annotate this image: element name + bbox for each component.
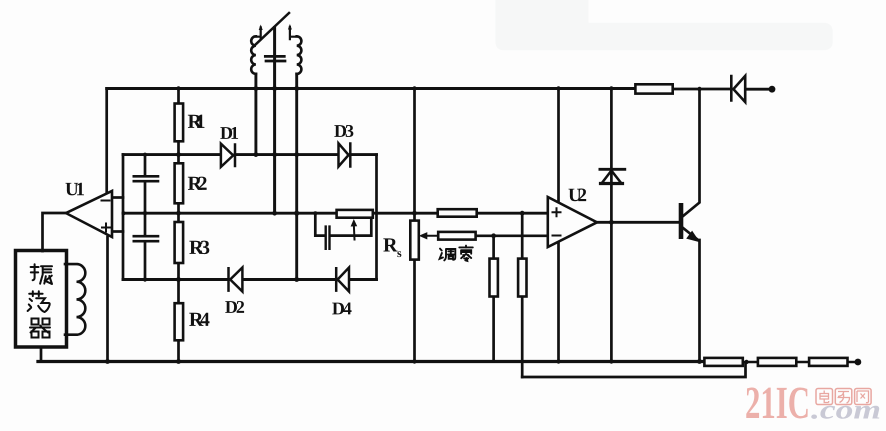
svg-text:U1: U1 bbox=[65, 179, 85, 200]
transistor Q1 emitter arrowhead bbox=[686, 231, 700, 243]
diode D1 bbox=[221, 144, 235, 167]
LVDT left coil arrow lead bbox=[256, 28, 261, 40]
resistor zero-adjust bbox=[438, 232, 475, 240]
wire bridge bottom line left of D2 bbox=[123, 278, 229, 281]
wire U2 output to transistor base bbox=[597, 221, 679, 224]
wire bridge bottom line D2 to D4 bbox=[242, 278, 336, 281]
watermark dot com bbox=[811, 395, 881, 425]
wire U1 output to oscillator bbox=[43, 213, 67, 251]
svg-text:R3: R3 bbox=[189, 237, 210, 259]
svg-text:D2: D2 bbox=[225, 297, 245, 317]
svg-text:D1: D1 bbox=[220, 123, 239, 143]
resistor chain 2 bottom right bbox=[758, 358, 796, 366]
svg-text:U2: U2 bbox=[568, 185, 587, 206]
wire bridge bottom line right of D4 bbox=[349, 278, 377, 281]
wire mid line RC to plus resistor bbox=[373, 212, 438, 215]
arrowhead of zero-adjust wiper pointing at Rs bbox=[419, 232, 428, 239]
wire left bus from top bus to U1 inverting input bbox=[105, 89, 108, 194]
resistor in RC network bbox=[337, 210, 373, 218]
resistor R1 bbox=[175, 104, 184, 142]
svg-text:s: s bbox=[397, 246, 402, 260]
resistor R2 bbox=[175, 163, 184, 203]
LVDT right coil arrow lead bbox=[290, 27, 297, 39]
wire Rs column bbox=[413, 89, 416, 362]
wire top bus left segment bbox=[107, 87, 636, 90]
diode D3 bbox=[339, 143, 351, 166]
wire resistor Ra column bbox=[492, 236, 495, 362]
resistor to U2 plus input bbox=[438, 209, 477, 217]
svg-text:R2: R2 bbox=[188, 173, 208, 195]
wire bridge top line right of D3 bbox=[350, 153, 376, 156]
wire bottom bus bbox=[38, 360, 704, 363]
svg-text:R: R bbox=[383, 234, 398, 256]
junction dots bridge bottom line bbox=[143, 277, 147, 281]
oscillator coil bbox=[65, 264, 85, 335]
wire U1 inverting input stub bbox=[112, 196, 123, 199]
watermark gray panel top right bbox=[495, 0, 832, 50]
wire zero-adjust wiper arrow line bbox=[424, 235, 438, 237]
label oscillator char qi bbox=[30, 319, 50, 338]
resistor on top bus bbox=[635, 84, 672, 93]
capacitor C2 plates bbox=[134, 236, 158, 241]
terminal dot bottom right bbox=[855, 359, 862, 366]
terminal dot top right bbox=[769, 86, 776, 93]
wire U1 noninverting input stub bbox=[112, 230, 123, 233]
junction dots top bus bbox=[176, 86, 180, 90]
arrowhead of trimmer arrow bbox=[351, 219, 358, 227]
wire LVDT center tap down to mid line bbox=[273, 28, 276, 214]
junction dots mid line bbox=[122, 211, 126, 215]
wire RC network cap branch bbox=[315, 213, 371, 235]
LVDT right coil L2 bbox=[297, 36, 302, 74]
wire bridge top line left of D1 bbox=[123, 153, 221, 156]
wire bridge top line D1 to D3 bbox=[235, 153, 339, 156]
watermark dianziwang boxes bbox=[816, 389, 871, 405]
svg-text:R1: R1 bbox=[188, 111, 206, 133]
capacitor C3 plates bbox=[326, 227, 330, 249]
resistor R3 bbox=[175, 222, 184, 263]
LVDT core bars bbox=[265, 56, 285, 61]
wire R1 R2 R3 R4 column bbox=[177, 89, 180, 362]
resistor R4 bbox=[175, 303, 184, 340]
resistor Ra vertical bbox=[490, 259, 498, 297]
wire top bus down behind U2 to bottom bus bbox=[557, 89, 560, 362]
wire zero-adjust resistor to U2 minus input bbox=[476, 234, 549, 237]
op-amp U2 bbox=[548, 197, 597, 247]
wire oscillator box bottom to bottom bus bbox=[40, 348, 43, 362]
transistor Q1 base bar bbox=[679, 203, 684, 239]
diode D4 bbox=[336, 268, 349, 292]
oscillator box bbox=[16, 251, 67, 348]
wire transistor collector bbox=[683, 89, 700, 217]
wire demodulator output mid line left bbox=[123, 212, 337, 215]
zener diode bbox=[602, 171, 622, 184]
svg-text:R4: R4 bbox=[189, 309, 210, 331]
label oscillator char dang bbox=[28, 291, 50, 312]
svg-text:D4: D4 bbox=[332, 298, 352, 318]
wire LVDT right coil down to bridge bottom line bbox=[295, 74, 298, 280]
svg-text:D3: D3 bbox=[334, 121, 354, 141]
wire top bus right of resistor bbox=[673, 88, 732, 91]
wire lower feedback line bbox=[522, 363, 745, 378]
op-amp U1 bbox=[66, 191, 112, 237]
wire top bus diode to terminal bbox=[745, 88, 769, 91]
wire mid line to U2 plus input bbox=[477, 212, 549, 215]
label tiao-ling zero-adjust bbox=[440, 249, 456, 261]
resistor chain 1 bottom right bbox=[704, 358, 742, 366]
LVDT movable core diagonal arm bbox=[254, 13, 290, 47]
diode top right bbox=[731, 76, 745, 102]
wire U1 noninverting input down to bottom bus bbox=[106, 237, 109, 362]
resistor chain 3 bottom right bbox=[809, 358, 847, 366]
potentiometer Rs body bbox=[410, 221, 419, 260]
junction dot U2 output bbox=[609, 220, 614, 225]
junction dots bottom bus bbox=[105, 359, 110, 364]
resistor Rb vertical bbox=[518, 259, 526, 297]
svg-text:21IC: 21IC bbox=[745, 377, 810, 428]
watermark 21IC bbox=[745, 377, 810, 428]
wire between chain resistors bbox=[743, 361, 856, 364]
wire LVDT left coil down to bridge top line bbox=[254, 74, 257, 155]
wire zener column bbox=[610, 89, 613, 362]
label oscillator char zhen bbox=[31, 264, 52, 284]
capacitor C1 plates bbox=[134, 176, 158, 181]
wire capacitor column bbox=[144, 155, 147, 280]
wire transistor emitter bbox=[683, 228, 700, 362]
junction dots bridge top line bbox=[143, 153, 147, 157]
wire resistor Rb column bbox=[521, 213, 524, 377]
arrow trimmer on RC network bbox=[353, 224, 356, 240]
LVDT left coil L1 bbox=[251, 36, 256, 74]
wire bridge right edge bbox=[375, 155, 378, 280]
junction dot minus wire bbox=[491, 233, 496, 238]
wire bridge left edge bbox=[122, 155, 125, 280]
diode D2 bbox=[229, 268, 243, 292]
